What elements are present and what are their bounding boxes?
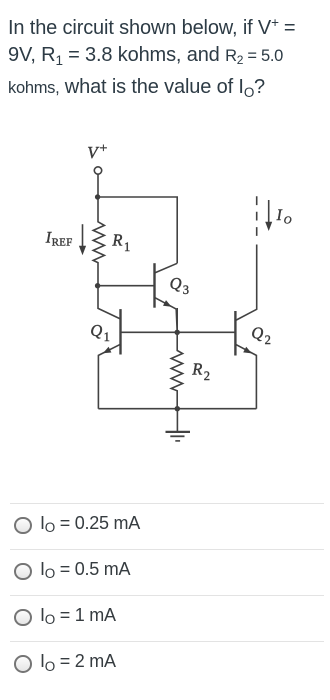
svg-text:Q: Q: [251, 324, 263, 343]
svg-text:2: 2: [204, 369, 210, 383]
svg-text:+: +: [100, 142, 108, 157]
svg-text:I: I: [276, 207, 283, 224]
svg-text:R: R: [191, 360, 202, 379]
svg-text:R: R: [111, 230, 122, 249]
svg-text:3: 3: [183, 283, 189, 297]
svg-text:REF: REF: [52, 237, 73, 249]
svg-text:O: O: [284, 214, 292, 226]
svg-text:Q: Q: [170, 274, 182, 293]
svg-text:1: 1: [124, 240, 130, 254]
svg-text:I: I: [45, 229, 52, 246]
svg-text:2: 2: [265, 333, 271, 347]
svg-text:Q: Q: [90, 321, 102, 340]
svg-text:1: 1: [104, 330, 110, 344]
svg-text:V: V: [87, 143, 100, 162]
